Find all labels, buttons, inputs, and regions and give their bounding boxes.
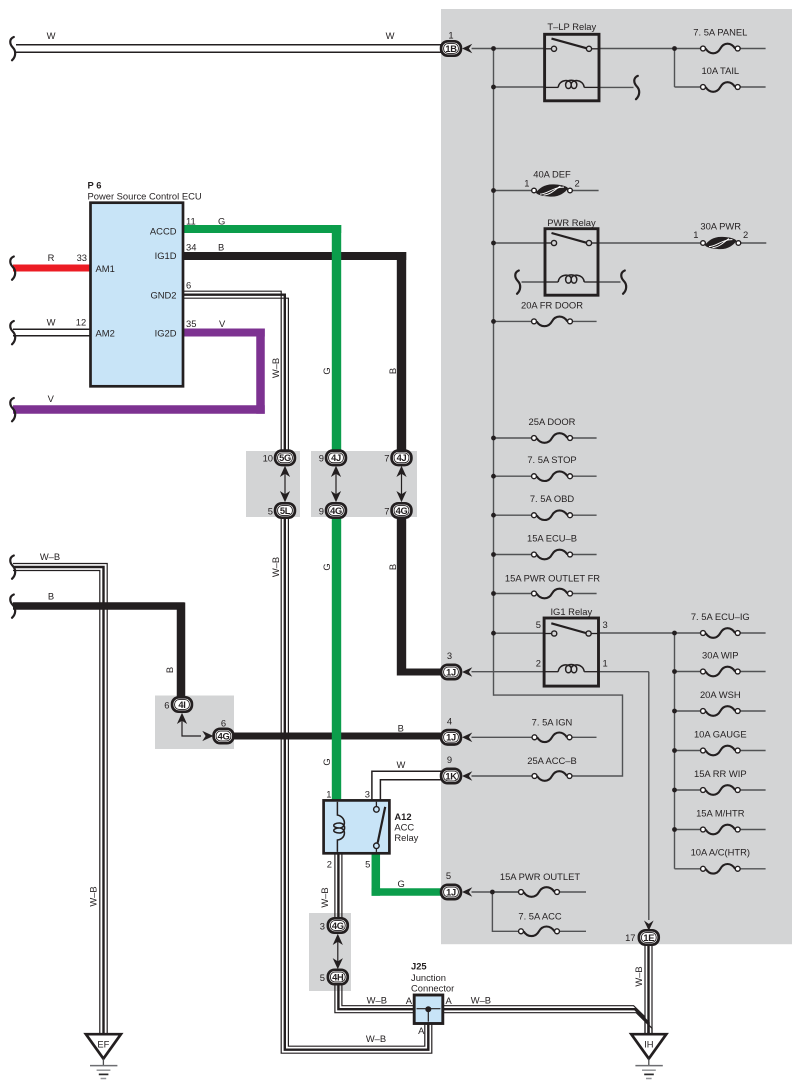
svg-text:4: 4 xyxy=(447,716,452,727)
svg-text:10A TAIL: 10A TAIL xyxy=(701,65,739,76)
wire 15A RR WIP output xyxy=(740,789,765,791)
fuse 7.5A PANEL xyxy=(706,44,736,54)
wire 15A ECU-B output xyxy=(573,554,597,556)
PWR relay switch blade xyxy=(552,233,587,243)
svg-text:2: 2 xyxy=(536,658,541,669)
svg-text:15A RR WIP: 15A RR WIP xyxy=(694,768,747,779)
wire bus to 40A DEF fuse xyxy=(494,190,532,192)
svg-text:B: B xyxy=(398,723,404,734)
svg-text:G: G xyxy=(321,758,332,765)
wire bus elbow to ACC-B feed xyxy=(494,695,623,776)
fusible link 40A DEF xyxy=(536,184,568,196)
wire W (white) battery feed, top xyxy=(16,44,442,46)
fuse 10A GAUGE xyxy=(706,746,736,756)
ACC relay switch blade xyxy=(378,807,386,843)
wire 7.5A OBD output xyxy=(573,514,597,516)
wire bus to 15A PWR OUTLET FR fuse xyxy=(494,593,532,595)
wire 7.5A ACC output xyxy=(560,930,586,932)
wire W-B from ACC relay pin 2 to connector 4G xyxy=(334,853,336,919)
svg-text:V: V xyxy=(219,318,226,329)
svg-text:35: 35 xyxy=(186,318,196,329)
T-LP relay coil xyxy=(545,86,559,88)
junction xyxy=(491,188,496,193)
break symbol PWR coil left xyxy=(515,271,520,294)
svg-text:W: W xyxy=(396,759,405,770)
svg-text:PWR Relay: PWR Relay xyxy=(547,217,596,228)
svg-text:IG1D: IG1D xyxy=(155,250,177,261)
svg-text:V: V xyxy=(48,393,55,404)
svg-text:GND2: GND2 xyxy=(150,290,176,301)
svg-text:9: 9 xyxy=(447,754,452,765)
svg-text:9: 9 xyxy=(319,505,324,516)
svg-text:25A ACC–B: 25A ACC–B xyxy=(527,755,577,766)
svg-text:5: 5 xyxy=(446,870,451,881)
junction xyxy=(491,319,496,324)
svg-text:B: B xyxy=(387,564,398,570)
connector 1B pin 1 xyxy=(441,41,461,55)
wire bus to 15A ECU-B fuse xyxy=(494,554,532,556)
wire bus to 10A A/C(HTR) fuse xyxy=(675,868,701,870)
svg-text:10A GAUGE: 10A GAUGE xyxy=(694,728,747,739)
junction xyxy=(491,513,496,518)
fuse 15A RR WIP xyxy=(706,785,736,795)
IG1 relay switch leads xyxy=(544,633,554,635)
wire PWR relay to 30A PWR fuse xyxy=(598,242,700,244)
svg-text:1B: 1B xyxy=(445,44,457,54)
wire G (green) from ECU ACCD to connector 4J xyxy=(183,225,341,233)
svg-text:5L: 5L xyxy=(280,506,291,516)
wire PANEL/TAIL bus vertical xyxy=(674,49,676,88)
arrow between 4J and 4G black xyxy=(396,466,406,477)
junction xyxy=(672,631,677,636)
ACC relay coil xyxy=(334,802,345,852)
wire bus to 25A DOOR fuse xyxy=(494,437,532,439)
ACC relay switch contacts xyxy=(374,807,380,813)
PWR relay switch leads xyxy=(545,242,554,244)
wire 30A PWR output xyxy=(741,242,766,244)
wire right fuse bus vertical xyxy=(674,633,676,869)
break symbol W-B feed xyxy=(10,556,15,579)
wire 7.5A IGN output xyxy=(572,736,596,738)
break symbol B feed xyxy=(10,595,15,618)
gray connector block 4I/4G xyxy=(155,696,234,750)
fuse 25A ACC-B xyxy=(537,771,567,781)
svg-text:7. 5A IGN: 7. 5A IGN xyxy=(532,716,573,727)
svg-text:J25: J25 xyxy=(411,961,427,972)
svg-text:5: 5 xyxy=(320,972,325,983)
connector 4I pin 6 xyxy=(172,697,192,711)
svg-text:A: A xyxy=(446,995,453,1006)
fuse 15A PWR OUTLET xyxy=(524,887,555,897)
svg-text:W–B: W–B xyxy=(40,551,60,562)
T-LP relay switch blade xyxy=(552,39,587,49)
svg-text:10: 10 xyxy=(263,453,273,464)
wire junction to 15A PWR OUTLET fuse xyxy=(495,891,518,893)
svg-text:W: W xyxy=(47,317,56,328)
wire W-B left feed to ground EF xyxy=(13,564,107,1035)
wire B from ECU IG1D to connector 4J xyxy=(183,252,406,260)
svg-text:1: 1 xyxy=(326,789,331,800)
ground IH xyxy=(631,1034,666,1059)
svg-text:IG2D: IG2D xyxy=(155,327,177,338)
fuse 7.5A ECU-IG xyxy=(706,628,736,638)
svg-text:1J: 1J xyxy=(446,887,456,897)
fuse 30A WIP xyxy=(706,667,736,677)
svg-text:IH: IH xyxy=(644,1039,653,1050)
wire bus to 20A WSH fuse xyxy=(675,710,701,712)
connector 4G pin 3 xyxy=(328,918,348,932)
svg-text:W–B: W–B xyxy=(366,1033,386,1044)
svg-text:7: 7 xyxy=(384,505,389,516)
wire R (red) to ECU AM1 xyxy=(13,265,91,272)
wire 1J(4) to 7.5A IGN fuse xyxy=(472,736,532,738)
svg-text:9: 9 xyxy=(319,453,324,464)
wire 25A DOOR output xyxy=(573,437,597,439)
svg-text:15A ECU–B: 15A ECU–B xyxy=(527,533,577,544)
svg-text:R: R xyxy=(48,252,55,263)
gray connector block 4J/4G pairs xyxy=(311,451,417,517)
connector pair 5G/5L xyxy=(275,451,295,465)
wire 20A WSH output xyxy=(740,710,765,712)
break symbol V feed xyxy=(10,398,15,421)
svg-text:15A PWR OUTLET FR: 15A PWR OUTLET FR xyxy=(505,573,600,584)
svg-text:G: G xyxy=(321,563,332,570)
connector 4G pin 6 xyxy=(214,729,234,743)
connector 4H pin 5 xyxy=(328,970,348,984)
svg-text:3: 3 xyxy=(603,619,608,630)
svg-text:5: 5 xyxy=(268,505,273,516)
svg-text:4G: 4G xyxy=(396,506,408,516)
svg-text:1E: 1E xyxy=(643,933,654,943)
arrow between 4G and 4H xyxy=(333,934,343,945)
relay T-LP Relay xyxy=(545,34,599,101)
svg-text:W–B: W–B xyxy=(319,887,330,907)
wire B from connector 4G to 1J(4) xyxy=(234,733,462,740)
svg-text:IG1 Relay: IG1 Relay xyxy=(550,606,592,617)
wire IG1 coil to 1E drop xyxy=(599,671,649,673)
svg-text:ACCD: ACCD xyxy=(150,225,177,236)
relay A12 ACC Relay xyxy=(324,800,390,853)
wire B from connector 4G to 1J(3) xyxy=(397,517,406,676)
junction xyxy=(491,552,496,557)
svg-text:A: A xyxy=(406,995,413,1006)
wire bus to 15A M/HTR fuse xyxy=(675,829,701,831)
svg-text:7. 5A OBD: 7. 5A OBD xyxy=(530,493,575,504)
wire vertical drop to connector 1E xyxy=(648,672,650,920)
fuse 7.5A OBD xyxy=(537,510,568,520)
svg-text:7. 5A ECU–IG: 7. 5A ECU–IG xyxy=(691,611,750,622)
IG1 relay switch contacts xyxy=(552,631,557,636)
wire 1K(9) to 25A ACC-B fuse xyxy=(472,775,532,777)
svg-text:3: 3 xyxy=(365,789,370,800)
svg-text:20A FR DOOR: 20A FR DOOR xyxy=(521,299,583,310)
wire W-B from connector 4H to J25 xyxy=(335,983,415,1012)
svg-text:T–LP Relay: T–LP Relay xyxy=(547,21,596,32)
wire T-LP coil to break xyxy=(599,86,634,88)
relay PWR Relay xyxy=(545,229,598,296)
connector 1J pin 4 xyxy=(441,730,461,744)
svg-text:7: 7 xyxy=(384,453,389,464)
svg-text:2: 2 xyxy=(575,178,580,189)
wire 10A GAUGE output xyxy=(740,750,765,752)
svg-text:11: 11 xyxy=(186,216,196,227)
ACC relay switch leads xyxy=(375,802,377,808)
gray connector block 4G/4H xyxy=(309,913,351,991)
svg-text:12: 12 xyxy=(76,317,86,328)
svg-text:1J: 1J xyxy=(446,667,456,677)
junction xyxy=(672,827,677,832)
wire 15A M/HTR output xyxy=(740,829,765,831)
wire junction drop to 7.5A ACC fuse xyxy=(492,892,518,931)
svg-text:30A PWR: 30A PWR xyxy=(700,221,741,232)
svg-text:A12: A12 xyxy=(394,811,411,822)
svg-text:1: 1 xyxy=(524,178,529,189)
connector 1J pin 3 xyxy=(441,665,461,679)
arrow and link 4I to 4G xyxy=(177,713,187,724)
svg-text:W: W xyxy=(386,30,395,41)
fuse 20A FR DOOR xyxy=(537,317,568,327)
wire main supply bus vertical xyxy=(493,49,495,696)
svg-text:6: 6 xyxy=(164,699,169,710)
svg-text:15A M/HTR: 15A M/HTR xyxy=(696,807,745,818)
wire bus to PWR relay switch xyxy=(494,242,546,244)
svg-text:W–B: W–B xyxy=(88,886,99,906)
junction xyxy=(672,788,677,793)
svg-text:B: B xyxy=(218,242,224,253)
svg-text:33: 33 xyxy=(77,252,87,263)
svg-text:W–B: W–B xyxy=(471,995,491,1006)
junction xyxy=(491,241,496,246)
wire bus to 20A FR DOOR fuse xyxy=(494,320,532,322)
connector 1K pin 9 xyxy=(441,769,461,783)
fuse 10A TAIL xyxy=(706,82,736,92)
wire 1J(3) to IG1 relay coil xyxy=(472,671,545,673)
ground EF xyxy=(86,1034,121,1059)
relay IG1 Relay xyxy=(544,618,598,686)
svg-text:1K: 1K xyxy=(445,771,457,781)
svg-text:4G: 4G xyxy=(218,731,230,741)
wire IG1 relay to ECU-IG fuse bus xyxy=(599,632,701,634)
svg-text:15A PWR OUTLET: 15A PWR OUTLET xyxy=(500,871,581,882)
wire 20A FR DOOR output xyxy=(573,320,597,322)
junction xyxy=(672,46,677,51)
svg-text:Junction: Junction xyxy=(411,972,446,983)
fuse 7.5A IGN xyxy=(537,733,567,743)
wire V (violet) from ECU IG2D to left xyxy=(183,329,265,337)
fuse 7.5A STOP xyxy=(537,471,568,481)
wire W (white) to ECU AM2 xyxy=(13,328,91,330)
svg-text:6: 6 xyxy=(221,718,226,729)
wire G from ACC relay pin 5 to 1J(5) xyxy=(372,853,381,895)
connector 1J pin 5 xyxy=(441,885,461,899)
connector 1E pin 17 xyxy=(644,921,654,931)
T-LP relay switch contacts xyxy=(551,46,556,51)
wire W-B from GND2 of ECU to connector 5G xyxy=(183,291,281,451)
wire bus to IG1 relay switch xyxy=(494,632,545,634)
junction xyxy=(490,890,495,895)
break symbol PWR coil right xyxy=(621,271,626,294)
svg-text:7. 5A PANEL: 7. 5A PANEL xyxy=(693,27,747,38)
break symbol R feed xyxy=(10,257,15,280)
wire 1B to T-LP relay pin xyxy=(472,48,545,50)
svg-text:EF: EF xyxy=(97,1039,109,1050)
wire bus to 30A WIP fuse xyxy=(675,671,701,673)
svg-text:4J: 4J xyxy=(397,453,407,463)
wire bus to 7.5A OBD fuse xyxy=(494,514,532,516)
wire W-B from connector 1E to ground IH xyxy=(644,944,646,1034)
svg-text:4G: 4G xyxy=(330,506,342,516)
junction xyxy=(672,709,677,714)
PWR relay switch contacts xyxy=(551,240,556,245)
svg-text:30A WIP: 30A WIP xyxy=(702,649,738,660)
svg-text:20A WSH: 20A WSH xyxy=(700,689,741,700)
svg-text:W: W xyxy=(47,30,56,41)
svg-text:B: B xyxy=(387,368,398,374)
J25 internal bus and junction xyxy=(417,1008,441,1010)
svg-text:Relay: Relay xyxy=(394,832,418,843)
wire 10A A/C(HTR) output xyxy=(740,868,765,870)
arrow between 5G and 5L xyxy=(280,466,290,477)
svg-text:1: 1 xyxy=(693,229,698,240)
svg-text:4J: 4J xyxy=(331,453,341,463)
junction xyxy=(672,748,677,753)
svg-text:Power Source Control ECU: Power Source Control ECU xyxy=(88,191,202,202)
svg-text:W–B: W–B xyxy=(270,358,281,378)
wire PANEL fuse output xyxy=(740,48,765,50)
wire bus to 15A RR WIP fuse xyxy=(675,789,701,791)
arrow between 4J and 4G green xyxy=(331,466,341,477)
svg-text:4I: 4I xyxy=(178,700,185,710)
svg-text:34: 34 xyxy=(186,242,196,253)
svg-text:4G: 4G xyxy=(332,921,344,931)
junction xyxy=(491,591,496,596)
svg-text:AM2: AM2 xyxy=(96,327,115,338)
svg-text:W–B: W–B xyxy=(270,557,281,577)
wire bus to 10A GAUGE fuse xyxy=(675,750,701,752)
wire G from connector 4G to ACC relay pin 1 xyxy=(332,517,341,800)
fuse 20A WSH xyxy=(706,706,736,716)
fuse 15A M/HTR xyxy=(706,825,736,835)
svg-text:17: 17 xyxy=(625,932,635,943)
svg-text:AM1: AM1 xyxy=(96,263,115,274)
wire to 10A TAIL fuse xyxy=(675,86,701,88)
IG1 relay coil xyxy=(544,671,558,673)
svg-text:W–B: W–B xyxy=(367,995,387,1006)
svg-text:10A A/C(HTR): 10A A/C(HTR) xyxy=(691,847,750,858)
wire bus to T-LP relay coil xyxy=(494,86,545,88)
svg-text:25A DOOR: 25A DOOR xyxy=(529,416,576,427)
svg-text:2: 2 xyxy=(743,229,748,240)
fuse 7.5A ACC xyxy=(524,927,555,937)
wire W from ACC relay pin 3 to 1K(9) xyxy=(372,771,442,800)
svg-text:3: 3 xyxy=(447,650,452,661)
svg-text:6: 6 xyxy=(186,280,191,291)
break symbol T-LP coil xyxy=(634,76,639,99)
svg-text:2: 2 xyxy=(327,858,332,869)
wire 15A PWR OUTLET FR output xyxy=(573,593,597,595)
fuse 25A DOOR xyxy=(537,433,568,443)
wire B (black) left feed to connector 4I xyxy=(13,602,185,610)
fuse 10A A/C(HTR) xyxy=(706,864,736,874)
svg-text:7. 5A ACC: 7. 5A ACC xyxy=(518,910,561,921)
gray background panel (fuse/relay block) xyxy=(441,9,792,944)
svg-text:B: B xyxy=(48,591,54,602)
wire 30A WIP output xyxy=(740,671,765,673)
fusible link 30A PWR xyxy=(705,237,736,249)
PWR relay coil xyxy=(546,281,558,283)
wire ECU-IG fuse output xyxy=(740,632,765,634)
svg-text:G: G xyxy=(321,367,332,374)
svg-text:B: B xyxy=(164,667,175,673)
junction xyxy=(672,669,677,674)
junction xyxy=(491,631,496,636)
svg-text:1: 1 xyxy=(603,658,608,669)
wire PWR relay coil left lead xyxy=(522,281,547,283)
connector pair 4J/4G green xyxy=(326,451,346,465)
fuse 15A PWR OUTLET FR xyxy=(537,589,568,599)
IG1 relay switch blade xyxy=(551,623,586,633)
svg-text:5: 5 xyxy=(536,619,541,630)
svg-text:ACC: ACC xyxy=(394,822,414,833)
break symbol W feed AM2 xyxy=(10,321,15,344)
svg-text:5G: 5G xyxy=(279,453,291,463)
svg-text:4H: 4H xyxy=(332,972,344,982)
junction xyxy=(491,46,496,51)
wire 7.5A STOP output xyxy=(573,475,597,477)
wire W-B from J25 to ground IH xyxy=(443,1006,645,1035)
svg-text:7. 5A STOP: 7. 5A STOP xyxy=(527,454,576,465)
wire TAIL fuse output xyxy=(740,86,765,88)
wire PWR relay coil right lead xyxy=(597,281,621,283)
connector pair 4J/4G black xyxy=(392,451,412,465)
svg-text:5: 5 xyxy=(365,858,370,869)
svg-text:1: 1 xyxy=(448,29,453,40)
svg-text:W–B: W–B xyxy=(633,966,644,986)
junction xyxy=(491,85,496,90)
junction xyxy=(491,436,496,441)
ECU P6 Power Source Control ECU xyxy=(91,203,184,387)
gray connector block 5G/5L xyxy=(246,451,300,517)
svg-text:Connector: Connector xyxy=(411,983,454,994)
wire 1J(5) to PWR OUTLET junction xyxy=(472,891,519,893)
svg-text:1J: 1J xyxy=(446,733,456,743)
wire W-B from connector 5L down to J25 xyxy=(281,517,432,1053)
break symbol W feed xyxy=(10,37,15,60)
svg-text:G: G xyxy=(218,216,225,227)
svg-text:G: G xyxy=(397,878,404,889)
svg-text:40A DEF: 40A DEF xyxy=(533,169,571,180)
fuse 15A ECU-B xyxy=(537,550,568,560)
wire bus to 7.5A STOP fuse xyxy=(494,475,532,477)
svg-text:P 6: P 6 xyxy=(88,180,102,191)
wire 40A DEF output xyxy=(573,190,599,192)
svg-text:A: A xyxy=(418,1025,425,1036)
T-LP relay switch leads xyxy=(545,48,554,50)
junction connector J25 xyxy=(414,995,443,1024)
wire 15A PWR OUTLET output xyxy=(560,891,586,893)
wire T-LP relay to PANEL fuse bus xyxy=(599,48,700,50)
junction xyxy=(491,474,496,479)
svg-text:3: 3 xyxy=(320,920,325,931)
